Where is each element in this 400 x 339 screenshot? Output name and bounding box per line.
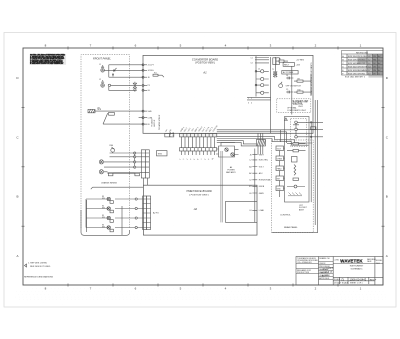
wire	[86, 208, 135, 210]
terminal block	[108, 173, 139, 176]
approval stamp marks	[367, 54, 383, 75]
converter inner divider	[271, 57, 292, 133]
wire	[86, 199, 135, 228]
A4 label	[226, 166, 236, 174]
switch S5	[102, 215, 113, 222]
CRT components	[287, 121, 306, 196]
slanted labels left cells	[164, 128, 172, 133]
title block	[296, 257, 383, 286]
component box	[109, 112, 115, 115]
wire	[110, 153, 135, 157]
A4 amp cluster	[216, 143, 239, 158]
ground bus	[108, 172, 140, 174]
wires below bundle	[258, 146, 263, 155]
control pin numbers	[249, 154, 252, 212]
wire	[136, 153, 142, 173]
ref labels	[258, 58, 301, 91]
resistor R10	[294, 91, 307, 93]
vertical label chassis mounted	[310, 62, 313, 95]
CRT assembly box	[285, 117, 310, 203]
transformer T1	[273, 71, 277, 77]
pin node	[108, 84, 110, 86]
front panel bottom wire	[81, 210, 130, 235]
small caps row	[286, 77, 293, 94]
wire	[104, 167, 135, 172]
long vertical wires	[311, 100, 317, 225]
pin J1-4	[142, 84, 147, 86]
option dashed box	[277, 99, 311, 113]
zone numbers top	[45, 43, 362, 47]
pin J1-3	[142, 76, 147, 78]
BNC connector J2	[99, 79, 104, 87]
pot R60	[110, 145, 115, 153]
CRT socket label	[299, 205, 308, 212]
wire	[137, 199, 142, 228]
sheet edge	[4, 33, 396, 308]
zone ticks bottom	[68, 284, 338, 287]
wire nodes	[310, 122, 315, 138]
wire	[86, 217, 135, 219]
wire	[247, 98, 271, 100]
revision table	[342, 51, 384, 79]
control strip	[254, 149, 256, 223]
pin J1-1	[142, 64, 147, 66]
vertical label P2	[158, 115, 161, 130]
knob R62	[99, 170, 103, 174]
wire	[307, 74, 311, 96]
switch S3	[102, 196, 113, 203]
connector J4 left cells	[165, 134, 174, 137]
CRT inner dashed box	[291, 119, 307, 147]
node circles	[135, 198, 137, 229]
pin J1-8	[142, 123, 147, 125]
function box column	[276, 146, 285, 197]
trigger box	[157, 151, 168, 156]
pin J1-5	[142, 89, 147, 91]
resistor R1	[153, 74, 164, 77]
scan noise	[0, 0, 1, 1]
wire	[95, 110, 143, 112]
node circles	[134, 152, 136, 168]
switch off/on	[279, 82, 302, 88]
wire group 2	[109, 85, 142, 90]
wires between connectors	[181, 137, 214, 148]
zone letters left	[16, 76, 19, 258]
rear panel box	[272, 140, 314, 233]
knob R61	[99, 160, 103, 164]
wire stubs below P4	[181, 151, 214, 155]
wire pair down to control	[221, 151, 222, 222]
relay K1	[273, 58, 280, 65]
fuse F1	[276, 60, 288, 62]
wire	[87, 200, 122, 235]
switch S2	[133, 82, 136, 92]
bottom-left note	[24, 263, 54, 279]
cable bundle hatch	[257, 139, 266, 146]
component chain	[255, 56, 269, 97]
control pin labels	[259, 154, 271, 212]
wire drops right	[217, 130, 294, 143]
wires to labels	[297, 122, 323, 137]
connector J3/P3 pair	[143, 196, 151, 230]
converter board A1 box	[143, 55, 313, 133]
connector P4 row	[180, 148, 217, 151]
power input box	[282, 71, 298, 75]
zone ticks top	[68, 47, 338, 50]
bottom connector J4 pin labels (slanted)	[180, 125, 218, 132]
time/trace board A2 box	[143, 185, 257, 235]
zone numbers bottom	[45, 286, 362, 290]
chassis dashed line	[91, 187, 144, 189]
meter connector A3	[88, 106, 102, 113]
resistor R9	[294, 80, 307, 82]
note arrow	[25, 264, 27, 267]
zone ticks left	[22, 107, 25, 226]
control strip pins	[252, 155, 257, 211]
inner control sub-box	[225, 201, 257, 222]
wire	[144, 178, 148, 185]
connector J4 row	[180, 134, 217, 137]
pin J1-2	[142, 69, 147, 71]
switch S6	[102, 225, 113, 232]
chain pin labels	[248, 57, 253, 104]
pin J1-6	[142, 110, 147, 112]
bus wires right of connector	[217, 136, 313, 146]
notes block top-left	[30, 54, 67, 65]
zone ticks right	[382, 107, 385, 226]
zone letters right	[386, 76, 389, 258]
front panel dashed box	[81, 55, 130, 228]
function box labels	[277, 148, 283, 190]
P4 pin labels (slanted)	[179, 158, 214, 161]
wires above bundle	[258, 133, 263, 139]
BNC connector J1	[99, 64, 104, 72]
switch S1 arrow	[112, 68, 116, 75]
wire diagonal	[103, 113, 143, 124]
pin J1-7	[142, 117, 147, 119]
connector J2/P2 pair	[141, 150, 149, 178]
vertical label P4/J4	[169, 132, 175, 137]
wire	[104, 161, 135, 164]
vertical label P1/J1	[151, 118, 157, 127]
wire	[86, 198, 135, 200]
rectifier box	[283, 63, 301, 67]
border frame	[23, 48, 383, 285]
switch S4	[102, 206, 113, 213]
wire group 1	[104, 65, 143, 77]
CRT arrow	[285, 118, 288, 121]
alternate time label	[292, 100, 309, 109]
